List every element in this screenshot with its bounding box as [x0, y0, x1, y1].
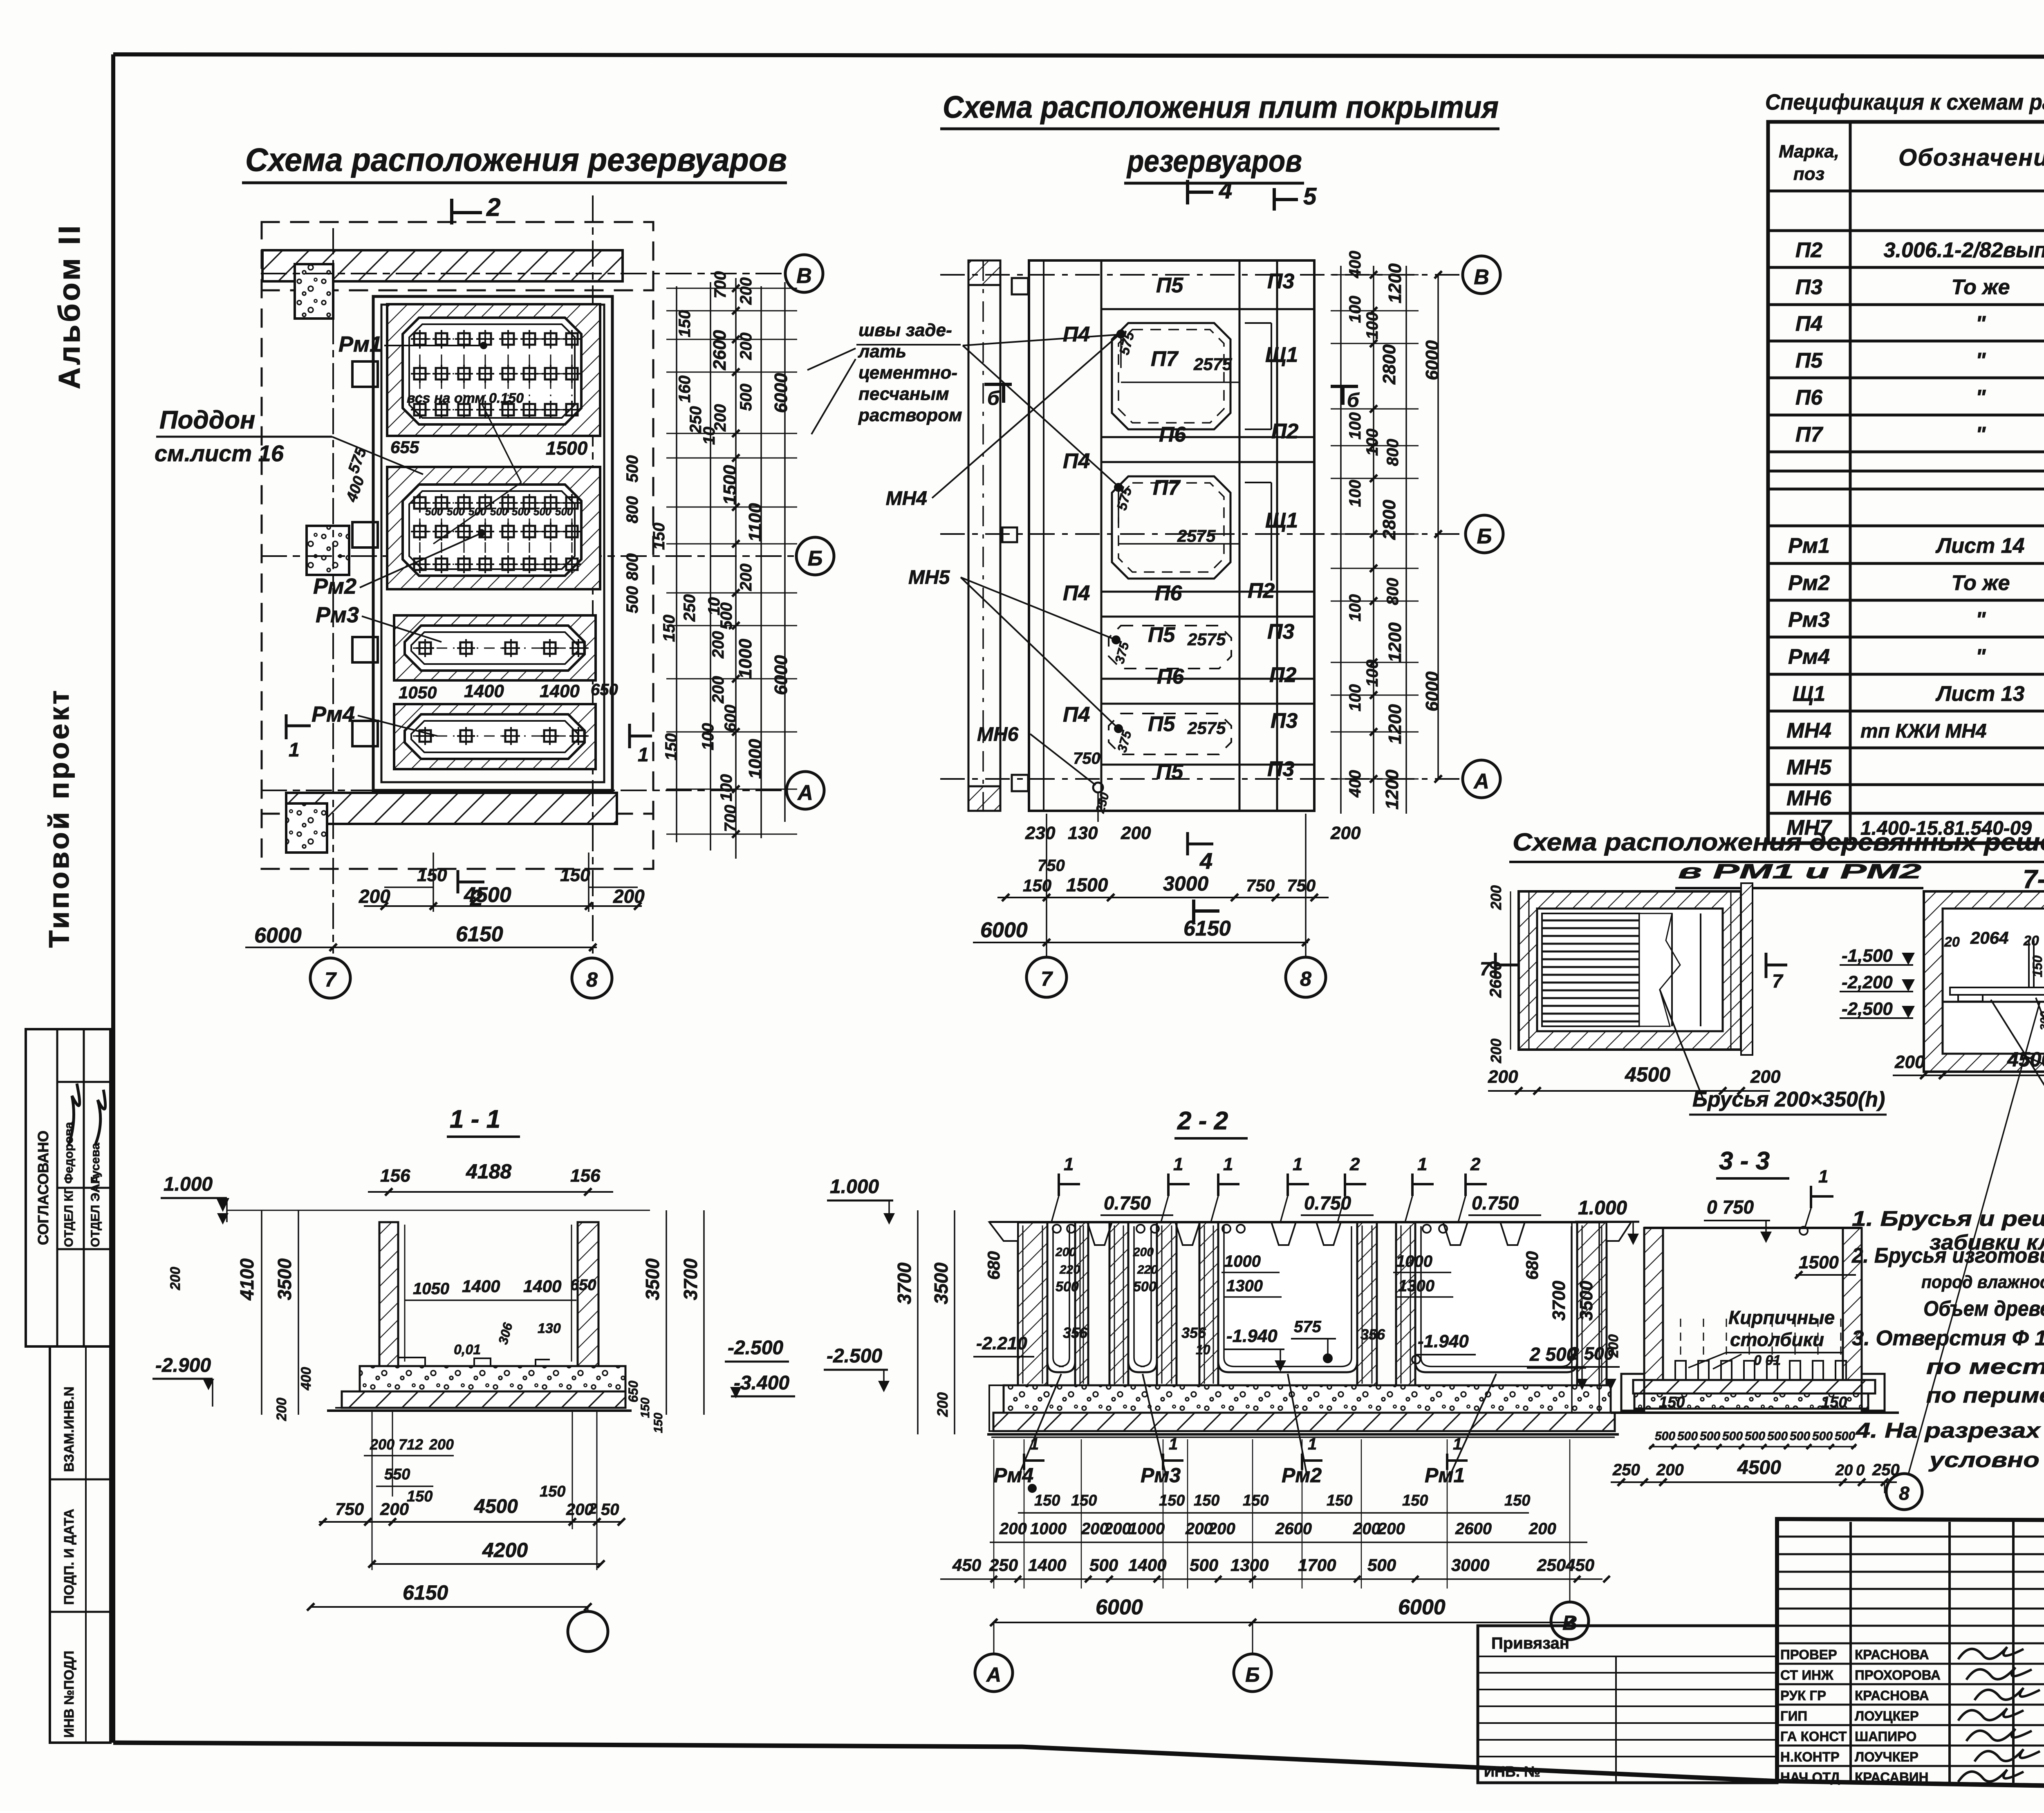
svg-text:8: 8: [1899, 1483, 1910, 1504]
svg-text:П5: П5: [1156, 274, 1183, 297]
svg-text:3500: 3500: [1576, 1281, 1596, 1321]
svg-text:ГА КОНСТ: ГА КОНСТ: [1780, 1729, 1847, 1744]
svg-text:650: 650: [570, 1277, 596, 1294]
svg-text:400: 400: [1346, 770, 1364, 798]
svg-text:8: 8: [1300, 967, 1311, 990]
svg-text:500: 500: [512, 505, 530, 518]
svg-text:Лист 13: Лист 13: [1935, 682, 2025, 706]
svg-text:П7: П7: [1153, 476, 1181, 500]
section 7-7 box: [1840, 888, 2044, 1101]
svg-text:Альбом II: Альбом II: [52, 223, 86, 389]
plan view: плиты покрытия: [968, 177, 1317, 811]
small anchor squares on wall strip: [1012, 278, 1028, 294]
svg-text:П4: П4: [1063, 323, 1090, 346]
svg-text:200: 200: [1750, 1067, 1781, 1087]
Щ1 openings marks: [1245, 322, 1271, 324]
svg-text:156: 156: [380, 1166, 410, 1186]
svg-text:-1,500: -1,500: [1842, 946, 1893, 966]
svg-text:1000: 1000: [1396, 1252, 1432, 1270]
svg-text:ИНВ. №: ИНВ. №: [1484, 1763, 1540, 1780]
leader text: швы заделать раствором: [807, 320, 1121, 487]
svg-text:500: 500: [1767, 1429, 1788, 1443]
svg-text:20: 20: [1944, 934, 1960, 950]
svg-text:П5: П5: [1795, 349, 1823, 372]
svg-text:1200: 1200: [1385, 704, 1405, 744]
plate joints vertical: [1100, 260, 1103, 811]
svg-text:П6: П6: [1155, 581, 1182, 605]
svg-text:2575: 2575: [1177, 526, 1216, 545]
svg-text:130: 130: [538, 1321, 561, 1336]
svg-text:150: 150: [540, 1483, 565, 1500]
svg-text:2: 2: [486, 193, 500, 222]
svg-text:3.006.1-2/82вып1-2: 3.006.1-2/82вып1-2: [1884, 238, 2044, 262]
svg-text:3700: 3700: [1549, 1281, 1569, 1321]
svg-text:150: 150: [639, 1398, 652, 1418]
svg-text:швы заде-: швы заде-: [858, 320, 952, 340]
svg-text:1.000: 1.000: [1578, 1197, 1627, 1219]
svg-text:500: 500: [623, 455, 641, 482]
svg-text:1: 1: [1308, 1435, 1317, 1453]
column axis circle 8 (plan2): [1286, 957, 1326, 997]
svg-text:150: 150: [2030, 955, 2044, 977]
svg-text:1200: 1200: [1382, 770, 1402, 810]
svg-text:150: 150: [650, 523, 668, 550]
svg-text:2600: 2600: [1487, 961, 1505, 998]
svg-text:1: 1: [1173, 1154, 1183, 1174]
П7 slab dashed openings: [1112, 323, 1230, 429]
svg-text:1: 1: [638, 744, 649, 766]
svg-text:СТ ИНЖ: СТ ИНЖ: [1780, 1667, 1833, 1683]
svg-text:400: 400: [298, 1367, 314, 1391]
svg-text:В: В: [796, 264, 812, 288]
svg-text:1100: 1100: [745, 503, 765, 542]
reservoir Рм1: wall ring hatched: [387, 304, 600, 436]
svg-text:ВЗАМ.ИНВ.N: ВЗАМ.ИНВ.N: [61, 1387, 76, 1472]
svg-text:Лист 14: Лист 14: [1935, 534, 2025, 558]
svg-text:": ": [1976, 423, 1986, 447]
svg-text:200: 200: [380, 1499, 409, 1519]
svg-text:Рм4: Рм4: [993, 1464, 1033, 1487]
svg-text:7: 7: [325, 968, 337, 991]
svg-text:6150: 6150: [1183, 917, 1231, 940]
svg-text:6000: 6000: [1096, 1595, 1143, 1619]
title: Схема расположения плит покрытия резервуаров: [940, 90, 1499, 183]
svg-text:4100: 4100: [236, 1258, 258, 1301]
svg-text:Спецификация к схемам располож: Спецификация к схемам расположения резер…: [1765, 90, 2044, 114]
svg-text:см.лист 16: см.лист 16: [155, 440, 284, 466]
svg-text:ОТДЕЛ ЭАА: ОТДЕЛ ЭАА: [89, 1175, 102, 1247]
svg-text:Кирпичные: Кирпичные: [1728, 1307, 1835, 1328]
svg-text:7- 7: 7- 7: [2023, 864, 2044, 894]
svg-text:2575: 2575: [1187, 630, 1226, 649]
svg-text:-2,500: -2,500: [1842, 999, 1893, 1019]
section mark 4 bottom: [1192, 900, 1195, 922]
svg-text:1400: 1400: [462, 1277, 500, 1296]
svg-text:500: 500: [425, 505, 443, 518]
svg-text:500: 500: [1133, 1279, 1156, 1295]
svg-text:1300: 1300: [1398, 1277, 1434, 1295]
axis circle В plan2: [1463, 256, 1500, 294]
svg-text:200: 200: [1330, 823, 1361, 843]
svg-text:РУК ГР: РУК ГР: [1780, 1688, 1826, 1703]
svg-text:Б: Б: [1245, 1663, 1260, 1686]
svg-text:песчаным: песчаным: [858, 384, 949, 404]
svg-text:4500: 4500: [1625, 1063, 1670, 1086]
svg-text:П4: П4: [1795, 312, 1822, 336]
reservoir Рм3: wall ring hatched: [394, 615, 596, 680]
svg-text:1400: 1400: [1128, 1555, 1166, 1575]
svg-text:700: 700: [722, 805, 740, 832]
svg-text:1500: 1500: [1799, 1252, 1839, 1272]
svg-text:220: 220: [1137, 1263, 1158, 1277]
svg-text:П5: П5: [1156, 760, 1183, 784]
svg-text:3000: 3000: [1163, 872, 1208, 895]
svg-text:712: 712: [399, 1436, 423, 1453]
svg-text:": ": [1976, 608, 1986, 632]
grating plan box: [1480, 883, 1887, 1115]
svg-text:Брусья 200×350(h): Брусья 200×350(h): [1692, 1088, 1885, 1111]
svg-text:МН5: МН5: [1786, 756, 1832, 779]
svg-text:160: 160: [676, 375, 694, 403]
svg-text:1 - 1: 1 - 1: [450, 1105, 500, 1133]
svg-text:б: б: [1347, 390, 1360, 411]
axis circle Б: [796, 537, 834, 575]
svg-text:4: 4: [1199, 848, 1213, 874]
svg-text:П2: П2: [1269, 663, 1296, 687]
svg-text:В: В: [1474, 265, 1489, 289]
plate field outer: [1029, 260, 1314, 811]
svg-text:пород влажностью до 25% пропит: пород влажностью до 25% пропитанной форм…: [1921, 1272, 2044, 1292]
svg-text:всs на отм 0.150: всs на отм 0.150: [407, 390, 524, 406]
svg-text:750: 750: [335, 1499, 364, 1519]
svg-text:": ": [1976, 349, 1986, 372]
svg-text:356: 356: [1181, 1324, 1206, 1341]
svg-text:0: 0: [1856, 1462, 1865, 1479]
svg-text:6150: 6150: [403, 1581, 448, 1604]
svg-text:1500: 1500: [546, 438, 588, 459]
svg-text:-2,200: -2,200: [1842, 972, 1893, 992]
svg-text:200: 200: [429, 1436, 454, 1453]
svg-text:КРАСНОВА: КРАСНОВА: [1855, 1647, 1929, 1662]
svg-text:200: 200: [709, 676, 727, 704]
svg-text:6000: 6000: [1422, 340, 1442, 380]
svg-text:7: 7: [1772, 970, 1784, 992]
svg-text:200: 200: [168, 1267, 183, 1290]
svg-text:250: 250: [1537, 1555, 1566, 1575]
svg-text:50: 50: [601, 1501, 619, 1519]
svg-text:100: 100: [1346, 684, 1364, 711]
svg-text:150: 150: [1194, 1492, 1219, 1509]
svg-text:П3: П3: [1267, 757, 1294, 781]
svg-text:Рм1: Рм1: [1788, 534, 1830, 558]
svg-text:раствором: раствором: [858, 405, 962, 425]
svg-text:1: 1: [1453, 1435, 1462, 1453]
svg-text:700: 700: [711, 271, 729, 298]
svg-text:750: 750: [1038, 857, 1065, 875]
svg-text:1: 1: [1064, 1154, 1074, 1174]
svg-text:5: 5: [1303, 183, 1317, 210]
svg-text:Рм1: Рм1: [1425, 1464, 1465, 1487]
svg-text:2: 2: [588, 1500, 597, 1517]
svg-text:250: 250: [1612, 1461, 1640, 1479]
svg-text:500: 500: [1056, 1279, 1079, 1295]
svg-text:1400: 1400: [523, 1277, 561, 1296]
svg-text:П3: П3: [1267, 269, 1294, 293]
svg-text:655: 655: [390, 438, 419, 457]
plate joints horizontal: [1101, 308, 1314, 310]
svg-text:200: 200: [999, 1520, 1027, 1538]
svg-text:П2: П2: [1271, 420, 1298, 443]
svg-text:-2.500: -2.500: [827, 1345, 882, 1367]
svg-text:750: 750: [1287, 876, 1316, 895]
wall band top hatched: [262, 250, 623, 281]
svg-text:6000: 6000: [1398, 1595, 1446, 1619]
svg-text:Рм3: Рм3: [1141, 1464, 1181, 1487]
svg-text:1300: 1300: [1230, 1555, 1269, 1575]
section 1-1 drawing: [152, 1160, 795, 1651]
svg-text:Типовой проект: Типовой проект: [43, 688, 75, 948]
svg-text:-2.500: -2.500: [728, 1337, 783, 1359]
svg-text:6150: 6150: [456, 922, 503, 946]
svg-text:500: 500: [623, 586, 641, 613]
section mark б right: [1331, 385, 1358, 388]
svg-text:0 01: 0 01: [1754, 1353, 1781, 1368]
svg-text:200: 200: [934, 1392, 951, 1417]
bottom dims plan 2: [973, 823, 1361, 946]
svg-text:100: 100: [717, 774, 735, 801]
svg-text:150: 150: [1034, 1492, 1060, 1509]
svg-text:-1.940: -1.940: [1226, 1326, 1277, 1346]
svg-text:4500: 4500: [1737, 1457, 1781, 1479]
svg-text:П2: П2: [1795, 238, 1822, 262]
svg-text:8: 8: [586, 968, 598, 991]
svg-text:Щ1: Щ1: [1265, 509, 1298, 532]
svg-text:150: 150: [676, 310, 694, 337]
svg-text:ГИП: ГИП: [1780, 1708, 1807, 1723]
svg-text:ПОДП. И ДАТА: ПОДП. И ДАТА: [61, 1509, 76, 1605]
svg-text:Схема расположения плит покр: Схема расположения плит покрытия: [943, 90, 1499, 125]
svg-text:130: 130: [1068, 823, 1098, 843]
svg-text:Марка,: Марка,: [1779, 141, 1839, 162]
svg-text:2: 2: [1470, 1154, 1481, 1174]
title: Схема расположения резервуаров: [242, 141, 787, 183]
svg-text:500: 500: [1835, 1429, 1855, 1443]
right-side dims plan 2: [1331, 251, 1442, 814]
axis line 8 vertical: [592, 196, 594, 953]
svg-text:200: 200: [1208, 1520, 1235, 1538]
svg-text:КРАСНОВА: КРАСНОВА: [1855, 1688, 1929, 1703]
svg-text:500: 500: [533, 505, 551, 518]
svg-text:500: 500: [1190, 1555, 1218, 1575]
svg-text:500: 500: [1367, 1555, 1396, 1575]
section 3-3 drawing: [1527, 1002, 2040, 1510]
anchor bolt grid Рм1: [411, 330, 581, 419]
svg-text:100: 100: [1346, 296, 1364, 323]
stamp: СОГЛАСОВАНО approval table: [26, 1029, 110, 1346]
svg-text:150: 150: [1071, 1492, 1097, 1509]
column axis circle 7 (plan1): [310, 958, 350, 998]
svg-text:500: 500: [490, 505, 508, 518]
svg-text:": ": [1976, 312, 1986, 336]
svg-text:П6: П6: [1795, 386, 1823, 410]
svg-text:200: 200: [1529, 1520, 1556, 1538]
svg-text:В: В: [1562, 1611, 1577, 1634]
svg-text:2. Брусья изготовить из некл: 2. Брусья изготовить из неклееной древес…: [1851, 1244, 2044, 1268]
svg-text:200: 200: [370, 1436, 394, 1453]
svg-text:условно не показаны.: условно не показаны.: [1928, 1448, 2044, 1472]
svg-text:МН6: МН6: [1786, 786, 1832, 810]
svg-text:750: 750: [1073, 749, 1100, 767]
svg-text:Объем древесины - 5, 32 м: Объем древесины - 5, 32 м3: [1923, 1297, 2044, 1321]
svg-text:ЛОУЦКЕР: ЛОУЦКЕР: [1855, 1708, 1919, 1723]
specification table: [1768, 122, 2044, 843]
svg-text:1: 1: [1223, 1154, 1233, 1174]
svg-text:Рм4: Рм4: [312, 702, 355, 727]
svg-text:1.000: 1.000: [830, 1176, 879, 1198]
svg-text:2 500: 2 500: [1529, 1344, 1577, 1365]
concrete pier mid-left: [307, 526, 349, 575]
svg-text:200: 200: [1103, 1520, 1131, 1538]
svg-text:П4: П4: [1063, 703, 1090, 727]
axis line Б: [262, 555, 793, 557]
svg-text:ОТДЕЛ КГ: ОТДЕЛ КГ: [62, 1187, 76, 1247]
svg-text:7: 7: [1041, 967, 1053, 990]
svg-text:200: 200: [737, 277, 755, 305]
svg-text:20: 20: [1835, 1462, 1853, 1479]
svg-text:6000: 6000: [771, 373, 791, 413]
svg-text:1700: 1700: [1298, 1555, 1336, 1575]
svg-text:2: 2: [1349, 1154, 1360, 1174]
svg-text:Гусева: Гусева: [89, 1143, 102, 1184]
svg-text:Н.КОНТР: Н.КОНТР: [1780, 1749, 1840, 1764]
svg-text:500: 500: [1089, 1555, 1118, 1575]
svg-text:300: 300: [2038, 1011, 2044, 1030]
svg-text:-1.940: -1.940: [1418, 1331, 1469, 1351]
svg-text:ИНВ №ПОДЛ: ИНВ №ПОДЛ: [61, 1651, 76, 1738]
svg-text:П5: П5: [1148, 712, 1175, 736]
svg-text:200: 200: [737, 563, 755, 591]
svg-text:Рм1: Рм1: [338, 332, 382, 357]
svg-text:поз: поз: [1793, 164, 1824, 184]
svg-text:0 750: 0 750: [1707, 1196, 1754, 1218]
svg-text:ПРОВЕР: ПРОВЕР: [1780, 1647, 1837, 1662]
svg-text:500: 500: [1722, 1429, 1743, 1443]
svg-text:А: А: [797, 781, 813, 805]
section mark 1 left: [285, 714, 288, 739]
svg-text:500: 500: [1745, 1429, 1765, 1443]
svg-text:1: 1: [1030, 1435, 1039, 1453]
svg-text:1500: 1500: [1066, 874, 1108, 895]
svg-text:-2.900: -2.900: [155, 1355, 211, 1376]
svg-text:500: 500: [555, 505, 573, 518]
title block (штамп): [1777, 1519, 2044, 1794]
svg-text:": ": [1976, 386, 1986, 410]
column axis circle 8 (plan1): [572, 958, 612, 998]
svg-text:МН4: МН4: [886, 488, 927, 509]
anchor bolts Рм4: [413, 727, 589, 745]
svg-text:1000: 1000: [1224, 1252, 1261, 1270]
svg-text:575: 575: [1294, 1318, 1321, 1336]
svg-text:100: 100: [1363, 429, 1381, 456]
svg-text:2800: 2800: [1379, 344, 1399, 385]
svg-text:2600: 2600: [1455, 1520, 1492, 1538]
svg-text:-3.400: -3.400: [734, 1372, 789, 1394]
svg-text:200: 200: [1055, 1245, 1076, 1259]
svg-text:1: 1: [1417, 1154, 1427, 1174]
svg-text:по месту методом рассве: по месту методом рассверловки: [1926, 1355, 2044, 1379]
svg-text:20: 20: [2023, 933, 2039, 949]
svg-text:200: 200: [1133, 1245, 1154, 1259]
axis circle Б plan2: [1466, 515, 1503, 553]
svg-text:ШАПИРО: ШАПИРО: [1855, 1729, 1916, 1744]
svg-text:П3: П3: [1267, 620, 1294, 644]
svg-text:4500: 4500: [464, 883, 511, 907]
svg-text:НАЧ.ОТД: НАЧ.ОТД: [1780, 1770, 1840, 1785]
wall band bottom hatched: [286, 793, 617, 824]
svg-text:10: 10: [700, 427, 718, 445]
svg-text:тп КЖИ МН4: тп КЖИ МН4: [1860, 720, 1987, 742]
section mark 5 top: [1273, 188, 1276, 211]
svg-text:200: 200: [1488, 1067, 1518, 1087]
svg-text:250: 250: [681, 594, 699, 622]
svg-text:1050: 1050: [413, 1280, 449, 1298]
svg-text:1000: 1000: [1030, 1520, 1067, 1538]
svg-text:П3: П3: [1795, 276, 1822, 299]
svg-text:500: 500: [447, 505, 465, 518]
svg-text:4200: 4200: [482, 1539, 528, 1562]
svg-text:П7: П7: [1795, 423, 1823, 447]
svg-text:А: А: [986, 1663, 1001, 1686]
svg-text:П4: П4: [1063, 449, 1090, 473]
svg-text:МН5: МН5: [908, 567, 950, 588]
svg-text:6000: 6000: [254, 924, 302, 947]
svg-text:1300: 1300: [1226, 1277, 1263, 1295]
svg-text:150: 150: [1504, 1492, 1530, 1509]
svg-text:3 - 3: 3 - 3: [1719, 1147, 1770, 1175]
svg-text:1000: 1000: [745, 739, 765, 779]
svg-text:750: 750: [1246, 876, 1275, 895]
svg-text:по периметру.: по периметру.: [1926, 1384, 2044, 1407]
svg-text:10: 10: [1196, 1342, 1210, 1357]
svg-text:500: 500: [1677, 1429, 1698, 1443]
svg-text:СОГЛАСОВАНО: СОГЛАСОВАНО: [35, 1131, 52, 1245]
svg-text:1: 1: [1293, 1154, 1302, 1174]
575 dim marks on П7 plates: [1117, 330, 1125, 338]
stamp column: ВЗАМ.ИНВ / ПОДП. И ДАТА / ИНВ № ПОДЛ: [50, 1346, 110, 1743]
svg-text:Схема расположения резерву: Схема расположения резервуаров: [245, 141, 787, 178]
svg-text:680: 680: [984, 1251, 1003, 1280]
svg-text:800: 800: [623, 553, 641, 581]
svg-text:550: 550: [384, 1466, 410, 1483]
svg-text:столбики: столбики: [1730, 1329, 1824, 1350]
svg-text:2575: 2575: [1187, 718, 1226, 738]
svg-text:200: 200: [1488, 1039, 1504, 1064]
svg-text:500: 500: [737, 384, 755, 411]
svg-text:200: 200: [1606, 1334, 1621, 1358]
column axis circle 7 (plan2): [1026, 957, 1067, 997]
svg-text:П4: П4: [1063, 581, 1090, 605]
section mark 2 (top): [450, 200, 453, 223]
anchor bolt grid Рм2: [411, 494, 581, 573]
svg-text:0.750: 0.750: [1104, 1192, 1151, 1214]
svg-text:4188: 4188: [466, 1160, 511, 1183]
svg-text:П6: П6: [1159, 423, 1186, 447]
svg-text:б: б: [987, 388, 1000, 409]
svg-text:ЛОУЧКЕР: ЛОУЧКЕР: [1855, 1749, 1918, 1764]
svg-text:2064: 2064: [1970, 928, 2008, 947]
svg-text:4500: 4500: [474, 1496, 518, 1517]
svg-text:1400: 1400: [1028, 1555, 1066, 1575]
